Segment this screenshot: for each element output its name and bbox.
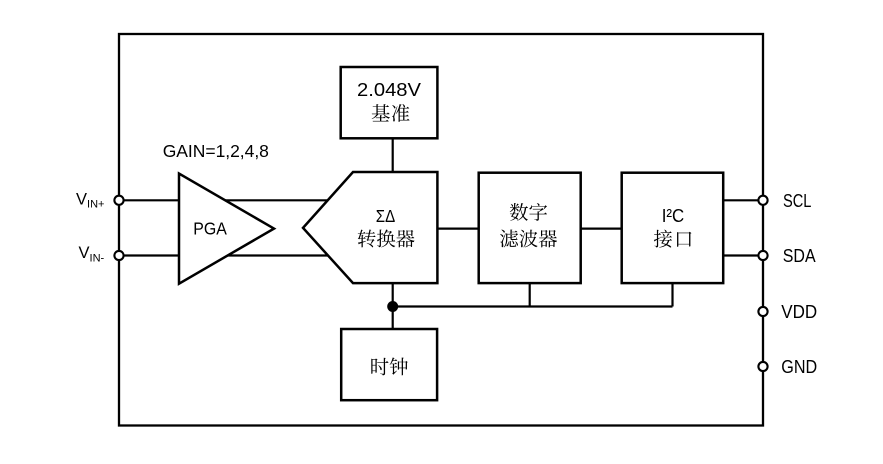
wire clock to digital filter [529,283,531,307]
svg-text:2.048V: 2.048V [357,79,422,100]
svg-text:PGA: PGA [193,219,227,239]
pin circle VIN- [114,251,123,260]
junction dot clock node [387,301,398,312]
clock block [341,329,437,400]
pin circle VIN+ [114,196,123,205]
wire I2C to SCL pin [722,199,763,201]
reference label [372,104,390,121]
wire I2C to SDA pin [722,254,763,256]
PGA amplifier triangle [179,174,274,284]
wire sigma-delta to digital filter [436,228,480,230]
wire VIN+ / differential top path [119,199,330,201]
svg-text:SCL: SCL [783,191,811,211]
digital filter block [479,173,581,283]
pin circle SCL [758,196,767,205]
2.048V reference block [341,67,438,138]
sigma-delta label line2 converter [358,229,376,247]
digital filter label line2 [500,230,518,248]
clock label [371,358,388,376]
chip outer border [119,34,763,426]
svg-text:SDA: SDA [783,246,816,266]
svg-text:VDD: VDD [781,302,817,322]
I2C interface block [622,173,724,283]
svg-text:GND: GND [781,357,817,377]
pin circle GND [758,362,767,371]
wire clock to I2C [671,283,673,307]
sigma-delta converter block [303,172,437,283]
digital filter label line1 [510,203,528,221]
svg-text:I²C: I²C [662,205,685,226]
svg-text:GAIN=1,2,4,8: GAIN=1,2,4,8 [163,141,269,161]
wire VIN- / differential bottom path [119,254,330,256]
pin circle VDD [758,307,767,316]
wire reference to sigma-delta [392,138,394,173]
I2C label line2 interface [654,230,672,248]
wire sigma-delta to clock [392,283,394,330]
pin circle SDA [758,251,767,260]
wire digital filter to I2C [580,228,623,230]
wire clock distribution horizontal [393,305,673,307]
svg-text:ΣΔ: ΣΔ [376,206,396,226]
